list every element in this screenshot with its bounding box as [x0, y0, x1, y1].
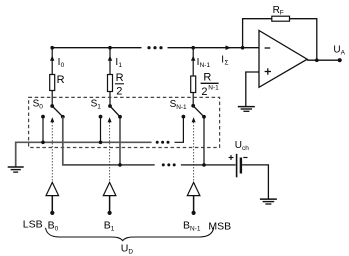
battery Uch [237, 154, 241, 178]
wire feedback loop [243, 19, 317, 61]
node bus tap 1 [108, 46, 112, 50]
label B0 [48, 219, 59, 232]
node S1 left on ground bus [99, 141, 103, 145]
node S0 left on ground bus [41, 141, 45, 145]
wire S0 left contact down [42, 117, 44, 143]
switch box dashed [29, 97, 220, 147]
label Uch [235, 140, 249, 152]
wire S1 left contact down [100, 117, 102, 143]
svg-text:0: 0 [55, 225, 59, 232]
svg-text:1: 1 [97, 104, 101, 111]
ground op-amp [238, 107, 255, 112]
driver triangle B1 [103, 182, 116, 215]
label UD [121, 242, 134, 255]
node SN-1 right on lower bus [202, 163, 206, 167]
wire output [307, 59, 340, 61]
bus ellipsis dots lower bus [162, 163, 176, 166]
label S0 [33, 99, 44, 111]
op-amp plus sign [265, 68, 271, 74]
arrow I0 [50, 56, 54, 61]
node UA terminal [338, 58, 342, 62]
node bus tap 0 [50, 46, 54, 50]
label IN-1 [197, 57, 211, 69]
svg-text:R: R [57, 74, 65, 86]
wire SN-1 left contact down [175, 117, 184, 143]
svg-text:ch: ch [242, 145, 249, 152]
label S1 [91, 99, 102, 111]
ground left [8, 167, 24, 172]
svg-text:N-1: N-1 [200, 62, 211, 69]
wire ground bus [16, 142, 152, 166]
svg-text:LSB: LSB [23, 218, 43, 230]
resistor R/2^N-1 [191, 76, 196, 93]
wire plus input to ground [246, 72, 259, 106]
svg-text:N-1: N-1 [208, 85, 219, 92]
wire S0 right contact down [62, 117, 64, 165]
svg-text:F: F [280, 10, 284, 17]
op-amp U1 [259, 31, 307, 88]
svg-text:2: 2 [116, 85, 122, 97]
wire battery to ground [242, 165, 268, 199]
svg-text:R: R [203, 71, 211, 83]
battery polarity marks [229, 155, 248, 160]
resistor RF [272, 16, 290, 21]
brace UD [46, 228, 214, 241]
svg-text:R: R [116, 72, 124, 84]
node S1 right on lower bus [118, 163, 122, 167]
svg-text:B: B [48, 219, 55, 231]
svg-text:0: 0 [39, 104, 43, 111]
label B1 [104, 219, 115, 232]
svg-text:0: 0 [61, 62, 65, 69]
svg-text:1: 1 [118, 62, 122, 69]
svg-text:R: R [273, 5, 280, 16]
label I sigma [221, 55, 228, 67]
switch S0 [41, 104, 65, 119]
bus ellipsis dots ground bus [156, 141, 170, 144]
wire branch 0 vertical [51, 48, 53, 106]
label RF [273, 5, 284, 17]
svg-text:N-1: N-1 [176, 104, 187, 111]
wire lower bus [63, 117, 236, 165]
ground right [260, 199, 277, 204]
svg-text:Σ: Σ [225, 60, 229, 67]
driver triangle B0 [46, 182, 59, 215]
node feedback output junction [315, 58, 319, 62]
svg-text:MSB: MSB [208, 220, 231, 232]
resistor R/2 [108, 75, 113, 92]
svg-text:U: U [333, 45, 340, 56]
label UA [333, 45, 345, 57]
svg-text:A: A [341, 49, 346, 56]
wire branch N-1 vertical [192, 48, 194, 106]
wire branch 1 vertical [109, 48, 111, 106]
resistor R [50, 75, 55, 91]
control line BN-1 dashed arrow [192, 117, 196, 181]
svg-text:U: U [235, 140, 242, 151]
switch S1 [99, 104, 122, 119]
svg-text:N-1: N-1 [190, 225, 201, 232]
wire summing bus top [52, 47, 259, 49]
svg-text:D: D [128, 248, 133, 255]
arrow I sigma [226, 45, 232, 50]
wire S1 right contact down [119, 117, 121, 165]
op-amp minus sign [265, 47, 271, 49]
label I0 [58, 57, 65, 69]
node feedback tap [241, 46, 245, 50]
svg-text:2: 2 [201, 86, 207, 98]
bus ellipsis dots top [147, 46, 162, 49]
label R/2^N-1 [201, 71, 220, 98]
label BN-1 [183, 219, 201, 232]
label R/2 [115, 72, 124, 97]
label SN-1 [170, 99, 187, 111]
label I1 [115, 57, 122, 69]
svg-text:1: 1 [111, 225, 115, 232]
arrow IN-1 [191, 56, 195, 61]
wire SN-1 right contact down [203, 117, 205, 165]
svg-text:U: U [121, 242, 129, 254]
svg-text:B: B [104, 219, 111, 231]
control line B1 dashed arrow [108, 117, 112, 181]
node bus tap N-1 [191, 46, 195, 50]
svg-text:B: B [183, 219, 190, 231]
control line B0 dashed arrow [50, 117, 54, 181]
switch SN-1 [182, 104, 206, 119]
driver triangle BN-1 [187, 182, 200, 215]
arrow I1 [108, 56, 112, 61]
